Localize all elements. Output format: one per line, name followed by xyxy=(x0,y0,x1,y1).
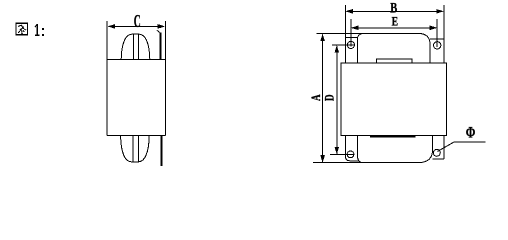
svg-text:Φ: Φ xyxy=(466,125,476,142)
svg-text:E: E xyxy=(392,14,398,28)
svg-text:A: A xyxy=(309,94,323,101)
svg-text:C: C xyxy=(134,11,141,31)
svg-text:D: D xyxy=(323,94,337,101)
